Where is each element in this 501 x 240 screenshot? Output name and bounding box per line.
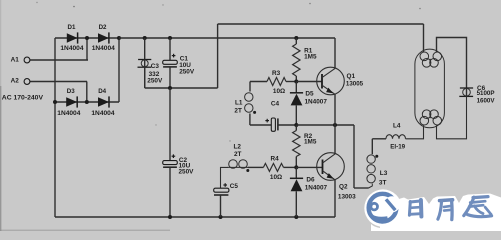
node Q1 base junction bbox=[294, 80, 298, 84]
svg-text:250V: 250V bbox=[179, 168, 195, 175]
wire L1 to C4 bbox=[250, 124, 271, 126]
svg-text:R4: R4 bbox=[271, 155, 280, 162]
label D3 bbox=[67, 88, 75, 95]
wire negative rail left vertical bbox=[54, 102, 56, 217]
node C5 ground bbox=[219, 215, 223, 219]
label R1 bbox=[304, 47, 313, 54]
svg-text:Q1: Q1 bbox=[347, 73, 356, 80]
wire Q1 base lead bbox=[296, 81, 322, 83]
label L1 bbox=[235, 99, 243, 106]
wire L3 top lead bbox=[371, 139, 373, 154]
svg-text:L2: L2 bbox=[234, 143, 242, 150]
wire bridge right vertical bbox=[118, 38, 120, 102]
svg-text:1N4004: 1N4004 bbox=[91, 110, 114, 117]
label L3 turns 3T bbox=[379, 180, 387, 187]
watermark character ri bbox=[409, 200, 421, 217]
label C5 bbox=[230, 183, 239, 190]
watermark logo ring bbox=[369, 194, 397, 222]
svg-text:D2: D2 bbox=[99, 24, 107, 31]
node D2 cathode rail bbox=[117, 36, 121, 40]
resistor R4 bbox=[263, 163, 283, 171]
label R3 bbox=[272, 70, 281, 77]
label L4 core EI-19 bbox=[390, 144, 405, 151]
wire L2 to R4 bbox=[248, 166, 263, 168]
watermark character chen bbox=[464, 197, 492, 217]
svg-text:2T: 2T bbox=[234, 151, 242, 158]
wire D6 anode lead bbox=[295, 191, 297, 217]
label C3 value 250V bbox=[147, 77, 163, 84]
svg-text:D5: D5 bbox=[305, 91, 314, 98]
svg-text:EI-19: EI-19 bbox=[390, 144, 405, 151]
node C2 tap bbox=[168, 86, 172, 90]
node D6 ground bbox=[294, 215, 298, 219]
terminal A2 bbox=[24, 79, 30, 85]
wire lamp top-right to C6 bbox=[437, 38, 467, 97]
scan left edge smudge bbox=[0, 0, 1, 231]
wire Q2 collector riser bbox=[334, 125, 336, 154]
label C3 value 332 bbox=[149, 71, 160, 78]
wire bridge left vertical bbox=[54, 38, 56, 102]
label L2 bbox=[234, 143, 242, 150]
label D4 value 1N4004 bbox=[91, 110, 114, 117]
node Q2 base junction bbox=[294, 165, 298, 169]
label AC 170-240V bbox=[2, 94, 44, 101]
label C1 value 250V bbox=[179, 69, 195, 76]
svg-text:13003: 13003 bbox=[338, 193, 356, 200]
svg-text:1N4007: 1N4007 bbox=[305, 98, 328, 105]
inductor L3 bbox=[367, 155, 375, 183]
wire C3 bottom lead bbox=[144, 67, 146, 88]
wire Q1 emitter drop bbox=[334, 94, 336, 125]
svg-text:1N4004: 1N4004 bbox=[92, 45, 115, 52]
diode D1 bbox=[67, 32, 78, 43]
wire L1 top lead bbox=[249, 82, 251, 92]
label C6 value 1600V bbox=[477, 97, 496, 104]
svg-text:R3: R3 bbox=[272, 70, 281, 77]
svg-text:10Ω: 10Ω bbox=[273, 88, 285, 95]
wire C2 bottom lead bbox=[169, 167, 171, 217]
svg-text:1N4004: 1N4004 bbox=[57, 110, 80, 117]
node D5-R2 midpoint bbox=[294, 123, 298, 127]
wire C5 top corner bbox=[221, 167, 229, 188]
node L3 polarity dot bbox=[375, 155, 378, 158]
wire R2 bottom lead bbox=[295, 157, 297, 168]
resistor R2 bbox=[293, 131, 300, 157]
label A1 bbox=[11, 57, 20, 64]
node half-bridge midpoint bbox=[333, 123, 337, 127]
terminal A1 bbox=[24, 57, 30, 63]
svg-text:2T: 2T bbox=[234, 108, 242, 115]
capacitor C1 bbox=[163, 60, 178, 67]
scan bottom edge smudge bbox=[0, 230, 170, 231]
wire AC input A2 to bridge bbox=[30, 81, 87, 83]
node R1 tap bbox=[294, 36, 298, 40]
lamp top filament bbox=[420, 52, 442, 67]
svg-text:13005: 13005 bbox=[346, 80, 364, 87]
inductor L1 bbox=[245, 93, 253, 112]
label C2 bbox=[179, 157, 188, 164]
capacitor C6 bbox=[459, 88, 473, 96]
svg-text:D1: D1 bbox=[68, 24, 76, 31]
label R1 value 1M5 bbox=[304, 54, 317, 61]
label R2 bbox=[304, 133, 313, 140]
wire R1 top lead bbox=[295, 38, 297, 44]
wire midpoint link bbox=[296, 124, 354, 126]
svg-text:1M5: 1M5 bbox=[304, 138, 317, 145]
wire bridge top row bbox=[55, 37, 119, 39]
svg-text:10Ω: 10Ω bbox=[270, 174, 282, 181]
diode D2 bbox=[98, 32, 109, 43]
label C1 bbox=[180, 55, 189, 62]
wire Q2 base lead bbox=[296, 166, 322, 168]
label A2 bbox=[11, 77, 20, 84]
node D1-D2 junction bbox=[85, 36, 89, 40]
label D1 value 1N4004 bbox=[60, 45, 83, 52]
capacitor C4 bbox=[271, 118, 278, 131]
diode D4 bbox=[98, 96, 109, 107]
svg-text:D4: D4 bbox=[98, 88, 106, 95]
watermark logo slash bbox=[386, 199, 395, 210]
capacitor C2 plus bbox=[172, 154, 176, 158]
label Q2 bbox=[339, 184, 348, 191]
label L2 turns 2T bbox=[234, 151, 242, 158]
wire C1 top lead bbox=[169, 38, 171, 60]
node L2 polarity dot bbox=[246, 169, 249, 172]
capacitor C4 plus bbox=[265, 119, 269, 123]
label C2 value 250V bbox=[179, 168, 195, 175]
label D1 bbox=[68, 24, 76, 31]
diode D3 bbox=[66, 96, 77, 107]
wire bridge bottom row bbox=[55, 101, 119, 103]
inductor L2 bbox=[228, 160, 249, 169]
wire A1 riser to D1-D2 junction bbox=[86, 38, 88, 60]
label Q1 value 13005 bbox=[346, 80, 364, 87]
wire C3-C1 bottom link bbox=[145, 87, 218, 89]
label R3 value 10ohm bbox=[273, 88, 285, 95]
label C1 value 10U bbox=[179, 62, 191, 69]
label R4 bbox=[271, 155, 280, 162]
wire link riser bbox=[217, 24, 219, 88]
node C1 tap bbox=[168, 36, 172, 40]
label D5 bbox=[305, 91, 314, 98]
wire L3 to L4 bbox=[372, 138, 386, 140]
svg-text:250V: 250V bbox=[179, 69, 195, 76]
wire Q2 emitter drop bbox=[334, 180, 336, 217]
watermark logo crescent disc bbox=[384, 196, 400, 212]
svg-text:3T: 3T bbox=[379, 180, 387, 187]
label D4 bbox=[98, 88, 106, 95]
svg-text:C3: C3 bbox=[151, 63, 160, 70]
svg-text:C4: C4 bbox=[271, 101, 280, 108]
node L1 polarity dot bbox=[253, 111, 256, 114]
wire L1 bottom lead bbox=[249, 114, 251, 126]
transistor Q2 bbox=[317, 153, 345, 181]
label D6 bbox=[306, 177, 315, 184]
label C2 value 10U bbox=[179, 163, 191, 170]
svg-text:L1: L1 bbox=[235, 99, 243, 106]
diode D5 bbox=[290, 93, 303, 106]
capacitor C3 bbox=[138, 60, 152, 68]
svg-text:L4: L4 bbox=[393, 123, 401, 130]
label R4 value 10ohm bbox=[270, 174, 282, 181]
svg-text:L3: L3 bbox=[380, 170, 388, 177]
wire top rail to lamp bbox=[218, 23, 424, 25]
svg-text:Q2: Q2 bbox=[339, 184, 348, 191]
svg-text:D6: D6 bbox=[306, 177, 315, 184]
wire R3 left lead bbox=[250, 81, 267, 83]
svg-text:1N4007: 1N4007 bbox=[305, 185, 328, 192]
svg-text:AC 170-240V: AC 170-240V bbox=[2, 94, 44, 101]
lamp tube envelope bbox=[415, 49, 445, 128]
node C3 tap bbox=[143, 36, 147, 40]
svg-text:1600V: 1600V bbox=[477, 97, 496, 104]
label C6 value 5100P bbox=[477, 90, 495, 97]
capacitor C5 bbox=[214, 188, 229, 195]
watermark logo eye bbox=[371, 203, 378, 210]
label D6 value 1N4007 bbox=[305, 185, 328, 192]
svg-text:A2: A2 bbox=[11, 77, 20, 84]
lamp bottom filament bbox=[420, 110, 442, 125]
watermark logo smile arc bbox=[371, 216, 388, 219]
svg-text:250V: 250V bbox=[147, 77, 163, 84]
label D3 value 1N4004 bbox=[57, 110, 80, 117]
label D2 bbox=[99, 24, 107, 31]
capacitor C1 plus bbox=[172, 54, 176, 58]
svg-text:1M5: 1M5 bbox=[304, 54, 317, 61]
wire C6 bottom to lamp bbox=[437, 96, 467, 138]
wire R1 bottom lead bbox=[295, 76, 297, 82]
wire L3 bottom link bbox=[354, 187, 369, 189]
wire L4 to lamp bbox=[406, 125, 424, 139]
svg-text:D3: D3 bbox=[67, 88, 75, 95]
node C2 ground bbox=[168, 215, 172, 219]
resistor R3 bbox=[267, 78, 286, 86]
label Q2 value 13003 bbox=[338, 193, 356, 200]
label D5 value 1N4007 bbox=[305, 98, 328, 105]
wire C5 bottom lead bbox=[220, 195, 222, 217]
wire C1 bottom lead bbox=[169, 67, 171, 88]
label L1 turns 2T bbox=[234, 108, 242, 115]
wire D5 cathode lead bbox=[295, 82, 297, 93]
wire D6 cathode lead bbox=[295, 167, 297, 178]
node bridge bottom left bbox=[53, 100, 57, 104]
wire negative bottom rail bbox=[55, 216, 335, 218]
wire lamp top-left drop bbox=[423, 24, 425, 52]
wire R4 right lead bbox=[284, 166, 297, 168]
label L3 bbox=[380, 170, 388, 177]
node D3-D4 junction bbox=[85, 100, 89, 104]
label R2 value 1M5 bbox=[304, 138, 317, 145]
watermark character yue bbox=[438, 200, 453, 220]
wire Q1 collector riser bbox=[334, 38, 336, 68]
svg-text:C5: C5 bbox=[230, 183, 239, 190]
wire A2 drop to D3-D4 junction bbox=[86, 82, 88, 103]
wire C2 top lead bbox=[169, 88, 171, 161]
scan specks bbox=[36, 2, 421, 142]
transistor Q1 bbox=[317, 67, 345, 95]
label D2 value 1N4004 bbox=[92, 45, 115, 52]
wire positive rail bbox=[119, 37, 335, 39]
label C6 bbox=[477, 85, 486, 92]
svg-text:5100P: 5100P bbox=[477, 90, 495, 97]
capacitor C5 plus bbox=[223, 183, 227, 187]
inductor L4 bbox=[386, 135, 406, 139]
svg-text:A1: A1 bbox=[11, 57, 20, 64]
wire R2 top lead bbox=[295, 125, 297, 131]
resistor R1 bbox=[293, 44, 300, 76]
label Q1 bbox=[347, 73, 356, 80]
wire R3 right lead bbox=[286, 81, 296, 83]
label L4 bbox=[393, 123, 401, 130]
capacitor C2 bbox=[163, 161, 178, 168]
wire C4 to midpoint bbox=[278, 124, 296, 126]
wire C3 top lead bbox=[144, 38, 146, 88]
watermark white band bbox=[371, 194, 501, 232]
wire D5 anode lead bbox=[295, 105, 297, 125]
label C4 bbox=[271, 101, 280, 108]
diode D6 bbox=[290, 178, 303, 191]
wire midpoint to L3 drop bbox=[353, 125, 355, 188]
svg-text:1N4004: 1N4004 bbox=[60, 45, 83, 52]
wire L3 bottom corner bbox=[369, 184, 373, 189]
wire AC input A1 to bridge bbox=[30, 59, 88, 61]
label C3 bbox=[151, 63, 160, 70]
